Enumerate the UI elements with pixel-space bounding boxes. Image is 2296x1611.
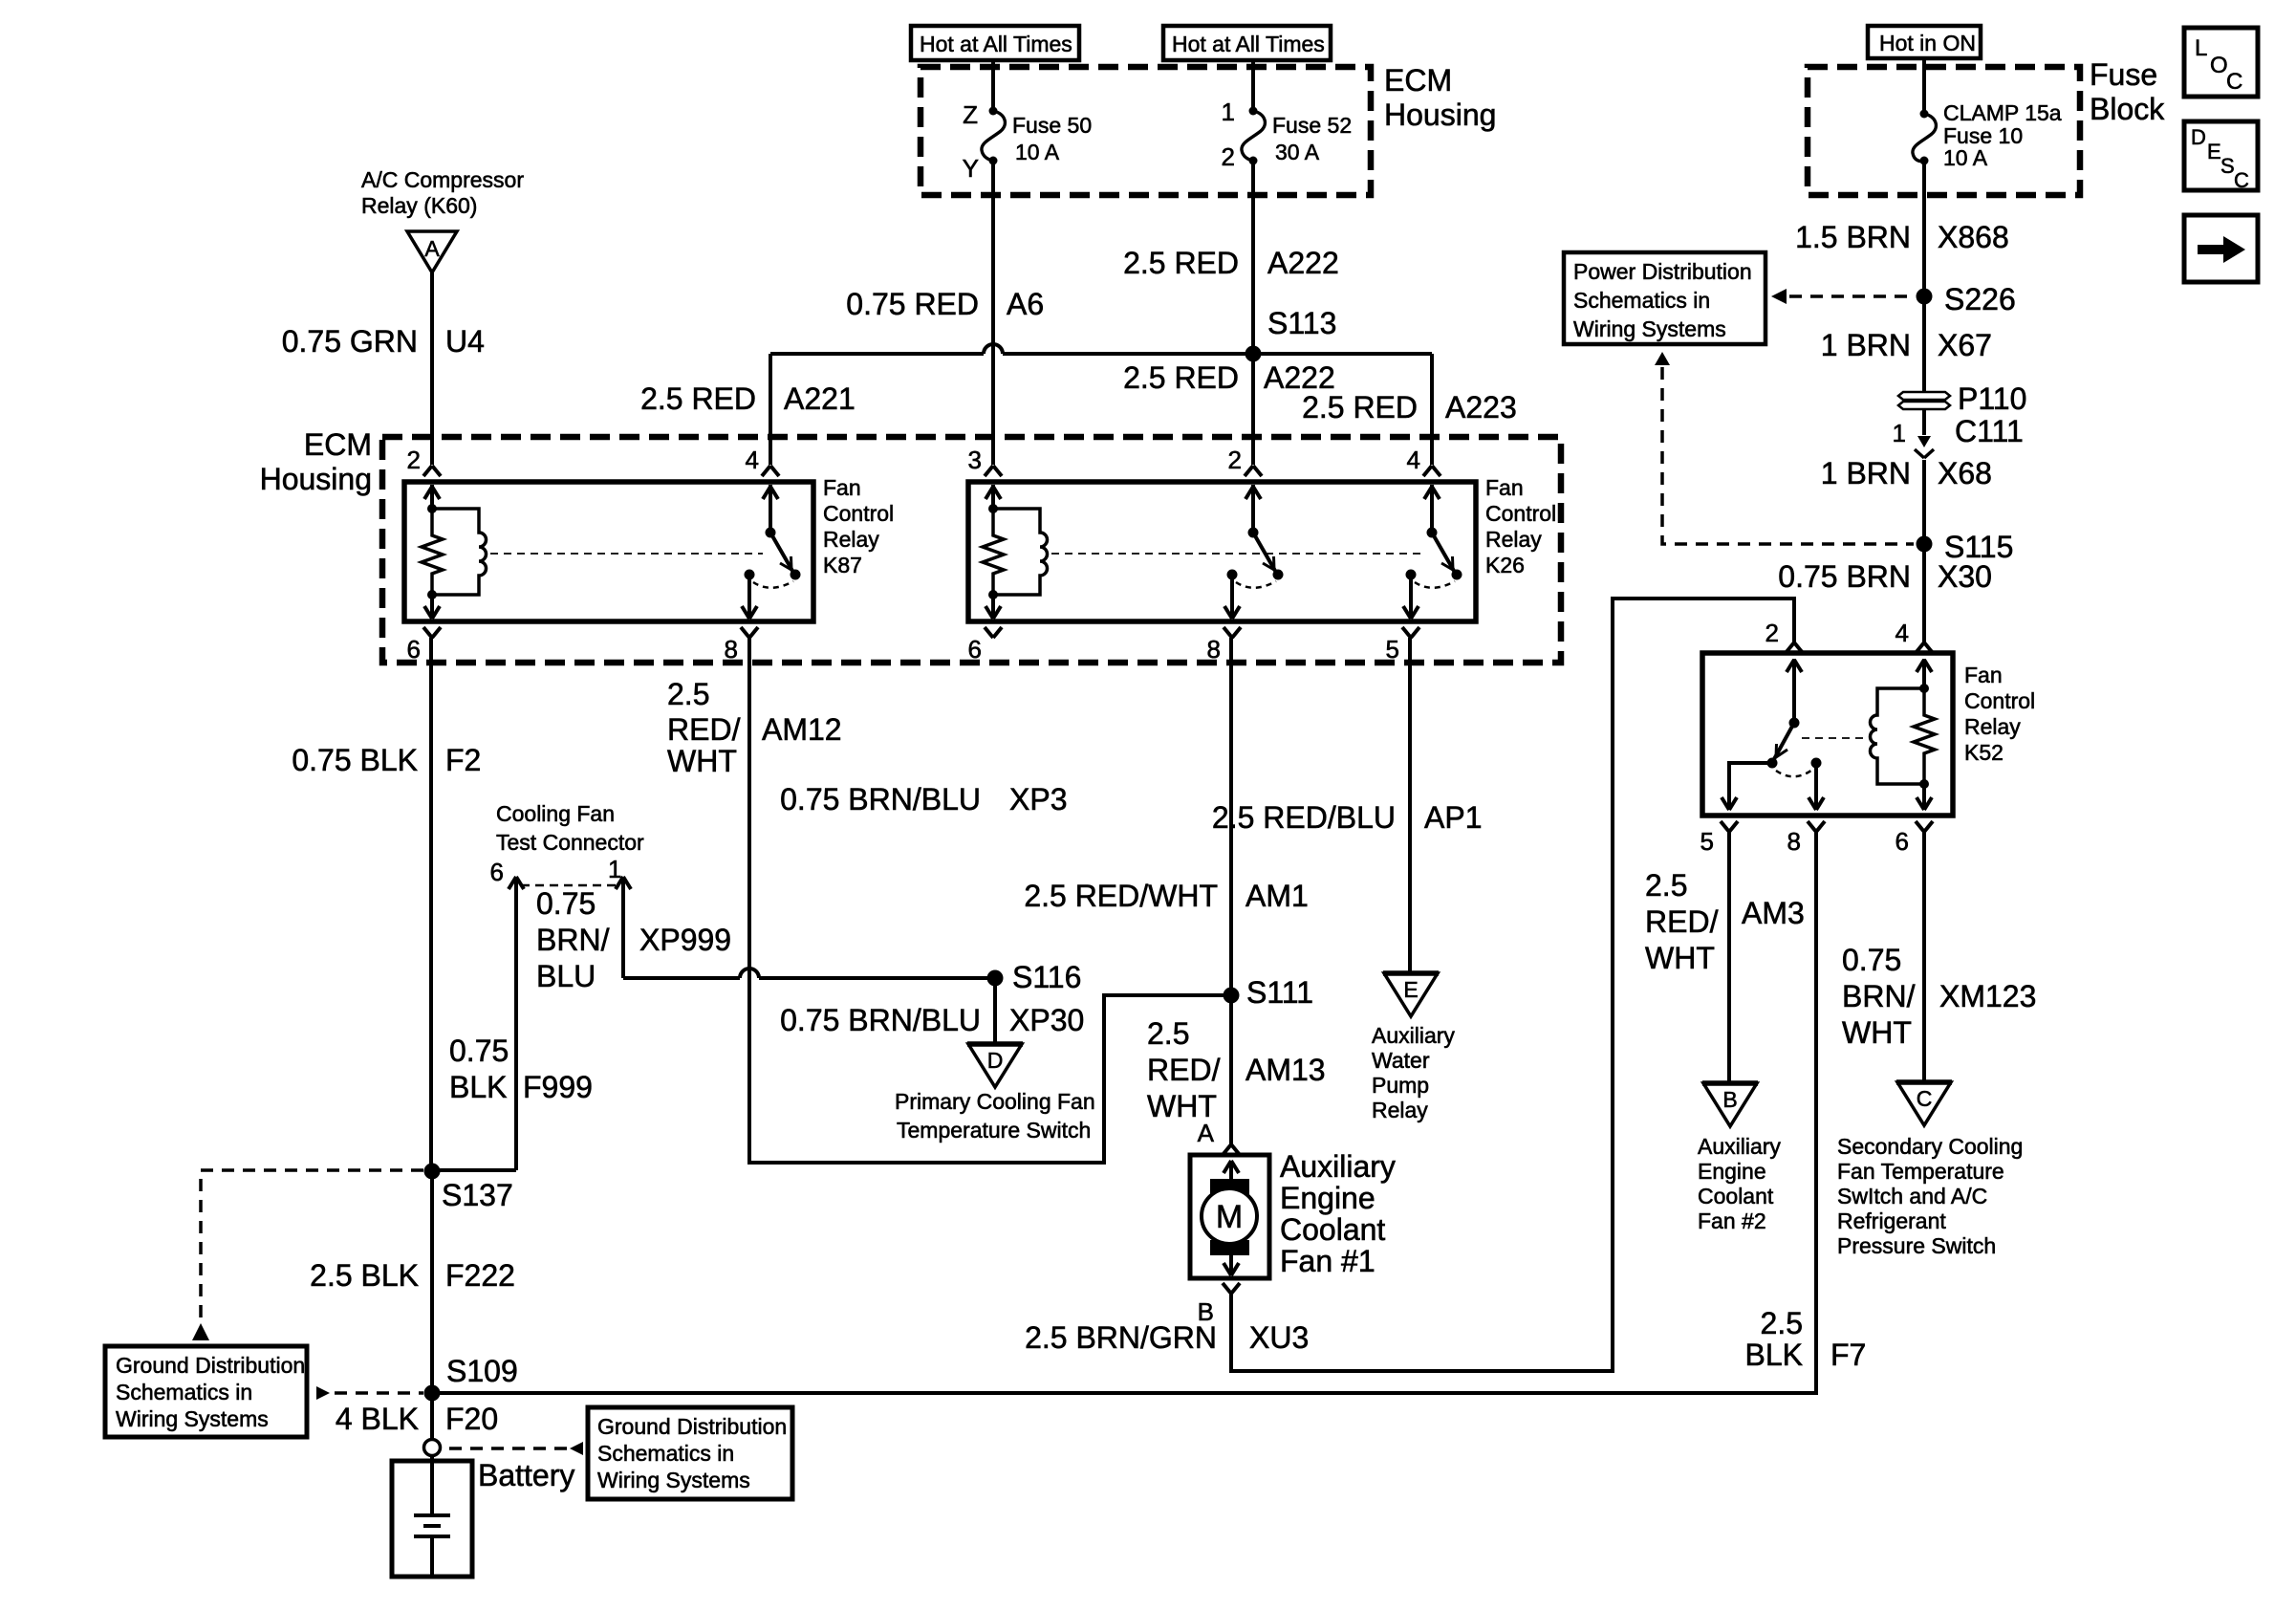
K87 switch (769, 485, 772, 533)
svg-text:3: 3 (968, 446, 982, 474)
svg-text:2.5: 2.5 (1645, 868, 1687, 903)
svg-text:Fan: Fan (1964, 663, 2003, 687)
relay K52 box (1702, 653, 1953, 816)
svg-text:2: 2 (1228, 446, 1242, 474)
svg-text:4: 4 (1895, 619, 1909, 647)
svg-text:Test Connector: Test Connector (496, 830, 644, 855)
svg-text:S109: S109 (446, 1354, 518, 1388)
battery terminal circle (424, 1440, 441, 1456)
wire A222 from fuse 52 down to S113 and relay K26 pin 2 (1251, 161, 1255, 465)
svg-text:S: S (2220, 154, 2235, 178)
K26 pin 6 connector (985, 627, 993, 638)
svg-text:2: 2 (407, 446, 421, 474)
svg-text:5: 5 (1700, 827, 1714, 856)
svg-text:A/C Compressor: A/C Compressor (361, 167, 524, 192)
motor up arrow (1229, 1161, 1233, 1183)
Ground Distribution reference box (left) (105, 1346, 307, 1437)
svg-text:Hot at All Times: Hot at All Times (920, 32, 1072, 56)
svg-text:F7: F7 (1830, 1338, 1866, 1372)
svg-text:Engine: Engine (1280, 1181, 1375, 1215)
svg-text:RED/: RED/ (1147, 1053, 1221, 1087)
S113 horizontal distribution wire with hop over A6 (770, 352, 984, 356)
svg-text:2.5 RED: 2.5 RED (1302, 390, 1418, 425)
svg-text:2: 2 (1765, 619, 1779, 647)
svg-text:S116: S116 (1012, 960, 1081, 994)
svg-text:Relay: Relay (823, 527, 879, 552)
wire XP999 from test connector to S116 with hop over AM12 (623, 976, 740, 980)
wire AM12 from K87 pin 8 to S111 (749, 638, 1224, 1163)
fuse 50 10A (982, 111, 1005, 161)
triangle connector A (to A/C compressor relay) (407, 231, 457, 272)
svg-text:AM13: AM13 (1245, 1053, 1326, 1087)
K26 relay coil (991, 485, 995, 509)
LOC icon box (2184, 28, 2258, 97)
wire U4 from triangle A to ECM pin 2 (430, 272, 434, 465)
test connector pin 6 arrow (514, 888, 518, 1170)
svg-text:0.75 BRN/BLU: 0.75 BRN/BLU (780, 782, 981, 816)
svg-text:X67: X67 (1938, 328, 1992, 362)
svg-text:Engine: Engine (1698, 1159, 1766, 1184)
node S226 (1917, 289, 1933, 305)
svg-text:F20: F20 (445, 1402, 498, 1436)
svg-text:4: 4 (1407, 446, 1420, 474)
svg-text:Power Distribution: Power Distribution (1573, 259, 1752, 284)
battery cell symbol (430, 1455, 434, 1515)
svg-text:5: 5 (1386, 635, 1399, 664)
K52 coil-switch dashed link (1802, 737, 1868, 739)
svg-text:F999: F999 (523, 1070, 593, 1104)
svg-text:BRN/: BRN/ (1842, 979, 1916, 1013)
svg-text:S113: S113 (1267, 306, 1336, 340)
svg-text:XP30: XP30 (1009, 1003, 1084, 1037)
svg-text:6: 6 (407, 635, 421, 664)
wire X68 below C111 (1922, 460, 1926, 642)
svg-text:Schematics in: Schematics in (1573, 288, 1710, 313)
svg-text:A222: A222 (1267, 246, 1339, 280)
svg-text:F222: F222 (445, 1258, 515, 1293)
svg-text:Pump: Pump (1372, 1073, 1429, 1098)
svg-text:S137: S137 (442, 1178, 513, 1212)
svg-text:4: 4 (746, 446, 759, 474)
wire stub from Hot box 2 (1251, 60, 1255, 111)
ECM Housing dashed box (top, fuses) (921, 67, 1371, 195)
svg-text:Control: Control (1485, 501, 1556, 526)
K26 pin 2 connector (1245, 466, 1253, 476)
relay K87 box (404, 482, 813, 621)
K52 pin 8 connector (1808, 821, 1816, 832)
svg-text:D: D (2191, 125, 2206, 149)
svg-text:BRN/: BRN/ (536, 923, 610, 957)
test connector dashed link (521, 884, 619, 887)
svg-text:Auxiliary: Auxiliary (1280, 1149, 1396, 1184)
svg-text:ECM: ECM (304, 427, 372, 462)
node S115 (1917, 536, 1933, 553)
svg-text:Fan Temperature: Fan Temperature (1837, 1159, 2004, 1184)
svg-text:Fan: Fan (823, 475, 861, 500)
svg-text:6: 6 (490, 858, 504, 886)
svg-text:BLK: BLK (449, 1070, 507, 1104)
svg-text:0.75: 0.75 (449, 1034, 509, 1068)
dashed reference wire from battery to Ground box (right) (449, 1447, 568, 1450)
svg-text:1 BRN: 1 BRN (1821, 456, 1911, 490)
wire X868 from fuse block down (1922, 161, 1926, 435)
wire AM3 from K52 pin 5 to triangle B (1727, 832, 1731, 1083)
svg-text:Wiring Systems: Wiring Systems (116, 1406, 269, 1431)
relay K26 box (968, 482, 1476, 621)
svg-text:2.5 BLK: 2.5 BLK (310, 1258, 419, 1293)
svg-text:10 A: 10 A (1943, 145, 1988, 170)
wire AP1 from K26 pin 5 to triangle E (1408, 638, 1412, 973)
K87 pin 6 connector (423, 627, 432, 638)
svg-text:X30: X30 (1938, 559, 1992, 594)
K87 relay coil (430, 485, 434, 509)
svg-text:Refrigerant: Refrigerant (1837, 1208, 1946, 1233)
svg-text:ECM: ECM (1384, 63, 1452, 98)
svg-text:CLAMP 15a: CLAMP 15a (1943, 100, 2062, 125)
svg-text:XP999: XP999 (639, 923, 731, 957)
Ground Distribution reference box (right) (588, 1407, 792, 1499)
svg-text:6: 6 (968, 635, 982, 664)
svg-text:Housing: Housing (1384, 98, 1496, 132)
svg-text:0.75 BLK: 0.75 BLK (292, 743, 418, 777)
svg-text:0.75: 0.75 (1842, 943, 1901, 977)
svg-text:10 A: 10 A (1015, 140, 1060, 164)
svg-text:SwItch and A/C: SwItch and A/C (1837, 1184, 1987, 1208)
svg-text:Water: Water (1372, 1048, 1430, 1073)
svg-text:O: O (2210, 53, 2228, 78)
svg-text:Relay: Relay (1485, 527, 1542, 552)
svg-text:Fan: Fan (1485, 475, 1524, 500)
svg-text:Fuse 52: Fuse 52 (1272, 113, 1352, 138)
svg-text:K52: K52 (1964, 740, 2004, 765)
motor brushes (1210, 1179, 1249, 1194)
svg-text:A: A (424, 236, 440, 261)
K87 pin 4 connector (762, 466, 770, 476)
svg-text:Secondary Cooling: Secondary Cooling (1837, 1134, 2023, 1159)
triangle connector D (primary cooling fan temp switch) (968, 1044, 1022, 1087)
K87 pin 2 connector (423, 466, 432, 476)
svg-text:E: E (2207, 140, 2221, 163)
node S113 (1245, 346, 1262, 362)
svg-text:Battery: Battery (478, 1458, 574, 1492)
wire AM13 from S111 to fan motor pin A (1229, 995, 1233, 1144)
svg-text:Primary Cooling Fan: Primary Cooling Fan (895, 1089, 1095, 1114)
svg-text:Y: Y (963, 154, 979, 183)
svg-text:Wiring Systems: Wiring Systems (1573, 316, 1726, 341)
node S116 (987, 970, 1004, 987)
test connector pin 1 arrow (621, 888, 625, 978)
svg-text:Hot at All Times: Hot at All Times (1172, 32, 1325, 56)
K87 pin 8 connector (741, 627, 749, 638)
svg-text:Z: Z (963, 100, 978, 129)
motor circle M (1202, 1188, 1257, 1244)
svg-text:2.5 RED/WHT: 2.5 RED/WHT (1024, 879, 1218, 913)
svg-text:2.5 BRN/GRN: 2.5 BRN/GRN (1025, 1320, 1217, 1355)
svg-text:A223: A223 (1445, 390, 1517, 425)
wire F20 from S109 to battery (430, 1393, 434, 1440)
svg-text:Relay: Relay (1964, 714, 2021, 739)
svg-text:Fuse 50: Fuse 50 (1012, 113, 1092, 138)
svg-text:K26: K26 (1485, 553, 1525, 577)
svg-text:WHT: WHT (1842, 1015, 1912, 1050)
Fuse Block dashed box (1808, 67, 2080, 195)
svg-text:Coolant: Coolant (1280, 1212, 1385, 1247)
connector C111 pin 1 (arrow + chevron) (1917, 436, 1931, 447)
svg-text:Housing: Housing (260, 462, 372, 496)
svg-text:Ground Distribution: Ground Distribution (116, 1353, 305, 1378)
wire AM1 from K26 pin 8 to S111 (1229, 638, 1233, 995)
node S111 (1224, 988, 1240, 1004)
svg-text:X68: X68 (1938, 456, 1992, 490)
svg-text:Wiring Systems: Wiring Systems (597, 1468, 750, 1492)
svg-text:S226: S226 (1944, 282, 2016, 316)
svg-text:XM123: XM123 (1939, 979, 2036, 1013)
power source box "Hot in ON" (1868, 26, 1981, 58)
dashed reference wire from S137 to Ground Distribution box (201, 1170, 423, 1319)
svg-text:D: D (987, 1048, 1004, 1073)
svg-text:RED/: RED/ (1645, 904, 1719, 939)
fan motor pin A (1223, 1144, 1231, 1155)
fan motor pin B (1223, 1283, 1231, 1294)
svg-text:Auxiliary: Auxiliary (1698, 1134, 1781, 1159)
svg-text:F2: F2 (445, 743, 481, 777)
svg-text:BLK: BLK (1745, 1338, 1803, 1372)
svg-text:8: 8 (1207, 635, 1221, 664)
K52 pin 2 connector (1786, 642, 1794, 653)
svg-text:A6: A6 (1007, 287, 1044, 321)
svg-text:Control: Control (1964, 688, 2035, 713)
svg-text:E: E (1403, 977, 1418, 1002)
DESC icon box (2184, 121, 2258, 190)
svg-text:1.5 BRN: 1.5 BRN (1795, 220, 1911, 254)
K26 switch 1 (pins 2-8) (1251, 485, 1255, 533)
K26 pin 8 connector (1224, 627, 1232, 638)
svg-text:C: C (2234, 168, 2249, 192)
svg-text:Control: Control (823, 501, 894, 526)
Power Distribution reference box (1564, 252, 1765, 344)
triangle connector C (secondary cooling fan temp switch) (1897, 1082, 1951, 1125)
wire A6 from fuse 50 down to relay K26 pin 3 (991, 161, 995, 465)
svg-text:Relay: Relay (1372, 1098, 1428, 1122)
svg-text:8: 8 (1787, 827, 1801, 856)
svg-text:C: C (1917, 1086, 1933, 1111)
svg-text:0.75 BRN/BLU: 0.75 BRN/BLU (780, 1003, 981, 1037)
svg-text:Schematics in: Schematics in (116, 1380, 252, 1404)
svg-text:Relay (K60): Relay (K60) (361, 193, 477, 218)
K26 switch 2 (pins 4-5) (1430, 485, 1434, 533)
K26 pin 5 connector (1402, 627, 1411, 638)
node S109 (424, 1385, 441, 1402)
ECM Housing dashed box (relays K87 and K26) (382, 437, 1561, 663)
svg-text:6: 6 (1895, 827, 1909, 856)
svg-text:AP1: AP1 (1424, 800, 1482, 835)
dashed reference wire from Ground box to S109 (316, 1386, 330, 1400)
svg-text:2.5: 2.5 (1147, 1016, 1189, 1051)
svg-text:BLU: BLU (536, 959, 596, 993)
K26 pin 3 connector (985, 466, 993, 476)
dashed reference wire from S115 up to Power Distribution box (1655, 352, 1670, 365)
inline connector P110 (1898, 392, 1950, 400)
svg-text:2.5 RED: 2.5 RED (1123, 246, 1239, 280)
svg-text:K87: K87 (823, 553, 862, 577)
svg-text:2.5 RED: 2.5 RED (1123, 360, 1239, 395)
K52 pin 5 connector (1721, 821, 1729, 832)
svg-text:X868: X868 (1938, 220, 2009, 254)
svg-text:AM12: AM12 (762, 712, 842, 747)
svg-text:P110: P110 (1958, 381, 2026, 416)
svg-text:2.5 RED/BLU: 2.5 RED/BLU (1212, 800, 1396, 835)
K26 pin 4 connector (1423, 466, 1432, 476)
svg-text:C: C (2226, 69, 2242, 95)
K52 pin 6 connector (1916, 821, 1924, 832)
wire XU3 from fan pin B to K52 pin 2 (1231, 599, 1794, 1371)
svg-text:0.75 RED: 0.75 RED (846, 287, 979, 321)
svg-text:XU3: XU3 (1249, 1320, 1309, 1355)
wire XM123 from K52 pin 6 to triangle C (1922, 832, 1926, 1082)
svg-text:1: 1 (608, 855, 621, 883)
svg-text:AM3: AM3 (1742, 896, 1805, 930)
K52 switch (1792, 659, 1796, 723)
svg-text:L: L (2195, 35, 2207, 61)
K52 pin 4 connector (1916, 642, 1924, 653)
power source box "Hot at All Times" (left) (911, 26, 1079, 60)
wire A221 from S113 to relay K87 pin 4 (769, 354, 772, 465)
svg-text:2: 2 (1222, 142, 1235, 171)
svg-text:0.75 GRN: 0.75 GRN (282, 324, 418, 359)
svg-text:Schematics in: Schematics in (597, 1441, 734, 1466)
dashed reference wire from S226 to Power Distribution box (1771, 289, 1787, 304)
K26 coil-switch dashed link (1051, 553, 1424, 555)
wire F7 from K52 pin 8 to S109 (432, 832, 1816, 1393)
svg-text:1: 1 (1893, 419, 1906, 447)
svg-text:4 BLK: 4 BLK (336, 1402, 419, 1436)
svg-text:Pressure Switch: Pressure Switch (1837, 1233, 1996, 1258)
wire from Hot in ON to fuse (1922, 58, 1926, 114)
svg-text:U4: U4 (445, 324, 485, 359)
svg-text:S111: S111 (1246, 975, 1313, 1010)
svg-text:B: B (1722, 1087, 1737, 1112)
svg-text:Block: Block (2090, 92, 2165, 126)
svg-text:Fan #2: Fan #2 (1698, 1208, 1766, 1233)
svg-text:A221: A221 (784, 381, 856, 416)
svg-text:1 BRN: 1 BRN (1821, 328, 1911, 362)
svg-text:AM1: AM1 (1245, 879, 1309, 913)
battery box (392, 1461, 472, 1577)
wire F222 from S137 to S109 (430, 1171, 434, 1393)
svg-text:Fan #1: Fan #1 (1280, 1244, 1375, 1278)
fuse CLAMP 15a Fuse 10 10A (1913, 114, 1936, 162)
svg-text:1: 1 (1222, 98, 1235, 126)
svg-text:Coolant: Coolant (1698, 1184, 1774, 1208)
svg-text:0.75 BRN: 0.75 BRN (1778, 559, 1911, 594)
svg-text:RED/: RED/ (667, 712, 741, 747)
svg-text:WHT: WHT (1645, 941, 1715, 975)
triangle connector B (aux engine coolant fan 2) (1703, 1083, 1757, 1126)
svg-text:Auxiliary: Auxiliary (1372, 1023, 1455, 1048)
arrow icon box (2184, 215, 2258, 282)
wire F999 elbow into S137 (432, 1168, 516, 1172)
wire A223 from S113 to relay K26 pin 4 (1430, 354, 1434, 465)
svg-text:8: 8 (725, 635, 738, 664)
svg-text:Fuse: Fuse (2090, 57, 2157, 92)
svg-text:M: M (1216, 1199, 1243, 1235)
svg-text:XP3: XP3 (1009, 782, 1067, 816)
wire XP30 from S116 to triangle D (993, 978, 997, 1044)
svg-text:Ground Distribution: Ground Distribution (597, 1414, 787, 1439)
node S137 (424, 1164, 441, 1180)
svg-text:30 A: 30 A (1275, 140, 1320, 164)
svg-text:Hot in ON: Hot in ON (1879, 31, 1976, 55)
wire stub from Hot box to ECM housing (991, 60, 995, 111)
K87 coil-switch dashed link (490, 553, 763, 555)
svg-text:C111: C111 (1955, 414, 2024, 448)
auxiliary engine coolant fan #1 motor box (1190, 1155, 1269, 1278)
motor down arrow (1229, 1252, 1233, 1275)
triangle connector E (aux water pump relay) (1384, 973, 1438, 1016)
svg-text:2.5: 2.5 (1761, 1306, 1803, 1340)
svg-text:Cooling Fan: Cooling Fan (496, 801, 615, 826)
svg-text:2.5 RED: 2.5 RED (640, 381, 756, 416)
power source box "Hot at All Times" (right) (1163, 26, 1331, 60)
K52 relay coil (1922, 659, 1926, 688)
fuse 52 30A (1242, 111, 1265, 161)
wire F2 from K87 pin 6 to S137 (429, 638, 433, 1171)
svg-text:2.5: 2.5 (667, 677, 709, 711)
svg-text:0.75: 0.75 (536, 886, 596, 921)
svg-text:A: A (1198, 1119, 1215, 1147)
svg-text:WHT: WHT (667, 744, 737, 778)
svg-text:Temperature Switch: Temperature Switch (897, 1118, 1091, 1143)
